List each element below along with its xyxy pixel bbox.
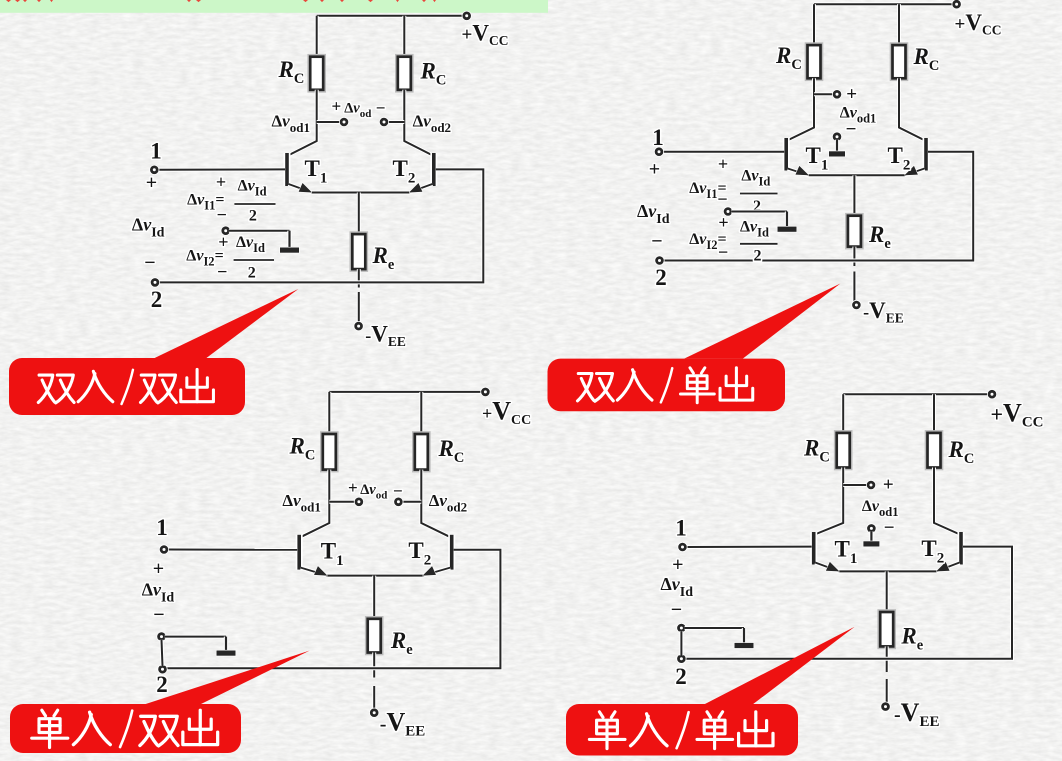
svg-text:2: 2 (248, 265, 256, 282)
node BL -Vee terminal (369, 708, 379, 718)
wire: TL T2 emitter (409, 184, 432, 193)
wire: TL right collector from rail (402, 16, 406, 57)
svg-text:−: − (217, 205, 227, 225)
BR T1 emitter arrow (826, 562, 841, 576)
formula TL dv_I1 = dv_Id/2 (187, 172, 275, 225)
node TL output terminal vod1 (339, 117, 349, 127)
wire: BR T2 emitter (936, 563, 959, 572)
wire: TR T2 emitter (905, 169, 925, 176)
wire: BR input 1 to T1 base (686, 545, 812, 549)
node TR -Vee terminal (851, 300, 861, 310)
wire: TL T1 collector (288, 90, 317, 156)
svg-text:−: − (846, 119, 857, 140)
svg-text:−: − (651, 231, 662, 253)
wire: TR T2 collector (899, 78, 925, 140)
node TR input terminal 2 (654, 255, 664, 265)
red text fragments cut off at top of green strip (6, 0, 436, 2)
svg-text:2: 2 (655, 265, 667, 290)
transistor BR T2 base bar (958, 532, 965, 565)
wire: BL right collector from rail (419, 392, 423, 434)
wire: TL output tap left (317, 120, 341, 124)
node TL output terminal vod2 (379, 117, 389, 127)
wire: TL mid to ground (229, 229, 290, 233)
wire: BR shorted input terminals (679, 631, 683, 655)
svg-text:2: 2 (754, 248, 762, 265)
wire: TL T1 emitter (289, 184, 313, 193)
wire: BL to Re (372, 576, 376, 619)
wire: TR input 1 to T1 base (662, 150, 784, 154)
svg-text:−: − (671, 599, 682, 621)
wire: BL T1 collector (300, 470, 329, 538)
callout: dual-in/dual-out 双入/双出 (9, 289, 298, 415)
wire: BL shorted input terminals (162, 640, 163, 666)
resistor TL RC right (396, 55, 412, 91)
ground TR output reference (829, 140, 845, 157)
resistor BR Re (879, 610, 895, 648)
wire: BL emitter rail (327, 574, 422, 578)
wire: BR T2 base loop to input 2 (685, 547, 1012, 659)
node BL +Vcc terminal (480, 387, 490, 397)
node BR output terminal vod1 (866, 480, 876, 490)
green header strip remnant (0, 0, 548, 13)
TR T1 emitter arrow (795, 166, 810, 180)
svg-text:−: − (153, 604, 164, 626)
wire: TL input 1 to T1 base (158, 167, 286, 171)
node TL mid drive terminal (221, 226, 231, 236)
resistor TL RC left (309, 55, 325, 91)
resistor TR RC right (891, 44, 907, 80)
svg-text:1: 1 (156, 515, 168, 540)
node TL input terminal 2 (150, 277, 160, 287)
resistor TR RC left (806, 44, 822, 80)
svg-text:+: + (348, 478, 358, 497)
svg-text:2: 2 (151, 287, 163, 312)
wire: TR to Re (852, 175, 856, 215)
svg-text:−: − (144, 252, 155, 274)
transistor BL T2 base bar (448, 535, 455, 570)
node BR input terminal 2 (676, 654, 686, 664)
svg-text:1: 1 (675, 516, 687, 541)
wire: TR T1 emitter (788, 169, 809, 176)
wire: TR T2 base loop to input 2 (663, 152, 974, 261)
wire: TL Re to -Vee lower (357, 292, 361, 323)
wire: TR mid to ground (731, 210, 787, 214)
wire: BR +Vcc top rail (843, 392, 988, 396)
ground TL input reference (280, 231, 299, 253)
svg-text:+: + (216, 172, 226, 192)
wire: TL +Vcc top rail (317, 14, 464, 18)
ground BR output reference (863, 531, 879, 546)
wire: BR emitter rail (839, 569, 936, 573)
svg-text:+: + (846, 84, 857, 105)
wire: BL input to ground (165, 635, 226, 639)
wire: TL output tap right (387, 120, 404, 124)
TR T2 emitter arrow (903, 166, 918, 180)
wire: BR output tap (843, 483, 868, 487)
svg-text:+: + (153, 558, 164, 580)
resistor BL RC right (413, 432, 429, 471)
wire: TR Re to -Vee upper (852, 247, 856, 266)
TL T1 emitter arrow (299, 183, 314, 197)
wire: BL Re to -Vee lower (372, 686, 376, 710)
svg-text:+: + (331, 97, 341, 116)
transistor TL T1 base bar (284, 153, 291, 186)
transistor BL T1 base bar (296, 535, 303, 570)
svg-text:+: + (649, 159, 660, 181)
formula TR dv_I2 = dv_Id/2 (689, 213, 777, 265)
node BR lower input terminal (676, 623, 686, 633)
node BR input terminal 1 (677, 542, 687, 552)
wire: TR left collector from rail (812, 4, 816, 45)
wire: BL T2 emitter (423, 568, 451, 576)
wire: TL left collector from rail (315, 16, 319, 57)
wire: BR left collector from rail (841, 394, 845, 433)
node TL +Vcc terminal (462, 11, 472, 21)
svg-text:−: − (376, 98, 386, 117)
transistor TR T2 base bar (923, 138, 930, 171)
wire: TR emitter rail (809, 173, 905, 177)
wire: TL T2 base loop to input 2 (158, 169, 483, 282)
node BL output terminal vod2 (393, 497, 403, 507)
wire: TR right collector from rail (897, 4, 901, 45)
resistor BR RC right (926, 431, 942, 469)
transistor BR T1 base bar (810, 532, 817, 565)
wire: BR to Re (885, 571, 889, 612)
wire: TR T1 collector (787, 78, 814, 140)
wire: TR Re to -Vee lower (852, 272, 856, 302)
svg-text:−: − (718, 242, 728, 262)
callout: dual-in/single-out 双入/单出 (548, 284, 841, 412)
wire: BL Re to -Vee upper (372, 653, 376, 678)
node TR mid drive terminal (723, 206, 733, 216)
wire: BR input to ground (685, 626, 744, 630)
wire: BL output tap right (402, 500, 422, 504)
wire: BL T1 emitter (301, 568, 328, 576)
node TR output terminal vod1 (832, 89, 842, 99)
node BR output minus terminal (866, 523, 876, 533)
formula TL dv_I2 = dv_Id/2 (186, 232, 274, 281)
wire: BL +Vcc top rail (329, 390, 482, 394)
svg-text:2: 2 (675, 664, 687, 689)
svg-text:+: + (718, 154, 728, 174)
node TR input terminal 1 (654, 147, 664, 157)
wire: BR Re to -Vee lower (885, 679, 889, 703)
ground TR input reference (778, 212, 797, 232)
node TR output minus terminal (832, 132, 842, 142)
svg-text:+: + (883, 474, 894, 495)
svg-text:−: − (217, 261, 227, 281)
wire: BR T1 emitter (815, 563, 839, 572)
callout: single-in/single-out 单入/单出 (566, 627, 855, 756)
transistor TR T1 base bar (783, 138, 790, 171)
svg-text:−: − (884, 517, 895, 538)
wire: BL input 1 to T1 base (167, 548, 297, 552)
BR T2 emitter arrow (934, 562, 949, 576)
wire: BL left collector from rail (327, 392, 331, 434)
wire: BR T2 collector (934, 468, 960, 535)
svg-text:−: − (717, 189, 727, 209)
ground BR input reference (735, 628, 754, 648)
node BL lower input terminal (156, 632, 166, 642)
svg-text:+: + (672, 554, 683, 576)
wire: BR right collector from rail (932, 394, 936, 433)
wire: TR output tap (814, 92, 834, 96)
resistor BL Re (366, 617, 382, 654)
node TL -Vee terminal (354, 321, 364, 331)
wire: TR +Vcc top rail (814, 2, 953, 6)
transistor TL T2 base bar (430, 153, 437, 186)
node BL input terminal 1 (159, 544, 169, 554)
resistor BL RC left (321, 432, 337, 471)
node BL input terminal 2 (157, 664, 167, 674)
wire: BL output tap left (329, 500, 355, 504)
wire: BR Re to -Vee upper (885, 646, 889, 672)
svg-text:−: − (393, 481, 403, 500)
svg-text:1: 1 (150, 139, 162, 164)
wire: BL T2 base loop to input 2 (166, 550, 501, 669)
node BL output terminal vod1 (354, 497, 364, 507)
callout: single-in/dual-out 单入/双出 (10, 651, 310, 754)
wire: TL Re to -Vee upper (357, 269, 361, 287)
node BR +Vcc terminal (987, 389, 997, 399)
TL T2 emitter arrow (407, 183, 422, 197)
wire: TL to Re (357, 193, 361, 235)
BL T2 emitter arrow (421, 566, 436, 580)
ground BL input reference (217, 637, 236, 656)
wire: TL emitter rail (312, 191, 409, 195)
formula TR dv_I1 = dv_Id/2 (689, 154, 777, 215)
node TR +Vcc terminal (952, 0, 962, 9)
svg-text:2: 2 (156, 672, 168, 697)
node BR -Vee terminal (880, 702, 890, 712)
wire: BR T1 collector (815, 468, 844, 535)
wire: BL T2 collector (421, 470, 450, 538)
svg-text:2: 2 (249, 208, 257, 225)
svg-text:+: + (146, 172, 157, 194)
node TL input terminal 1 (149, 165, 159, 175)
resistor TL Re (351, 233, 367, 271)
svg-text:1: 1 (652, 125, 664, 150)
resistor TR Re (846, 214, 862, 248)
svg-text:+: + (718, 213, 728, 233)
BL T1 emitter arrow (314, 566, 329, 580)
wire: TL T2 collector (404, 90, 433, 156)
resistor BR RC left (835, 431, 851, 469)
